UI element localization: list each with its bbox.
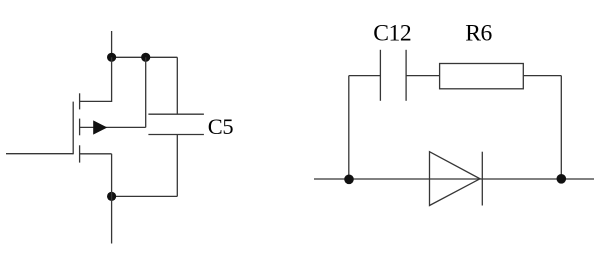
wire C5 to bottom rail — [176, 135, 178, 197]
svg-text:R6: R6 — [465, 21, 492, 47]
node junction dot right — [557, 174, 567, 184]
wire gate lead — [6, 153, 73, 155]
wire R6 to right vertical — [523, 75, 561, 77]
transistor Q1 channel bar bottom — [79, 145, 81, 162]
capacitor C12 left plate — [379, 50, 381, 101]
wire C12 to R6 — [406, 75, 440, 77]
diode D1 cathode bar — [481, 152, 483, 206]
capacitor C12 right plate — [405, 50, 407, 101]
transistor Q1 channel bar top — [79, 93, 81, 109]
wire source stub — [80, 153, 112, 155]
wire drain top lead — [111, 31, 113, 57]
node junction dot bottom — [107, 192, 116, 201]
transistor Q1 gate line — [72, 102, 74, 155]
wire top rail to C5 — [176, 57, 178, 114]
wire body line — [80, 126, 146, 128]
capacitor C5 top plate — [148, 113, 204, 115]
node junction dot top-left — [107, 53, 116, 62]
diode D1 triangle — [430, 152, 481, 206]
resistor R6 body — [440, 64, 524, 89]
wire body to top rail — [145, 57, 147, 127]
transistor Q1 channel bar middle — [79, 119, 81, 136]
wire source lead — [111, 154, 113, 244]
node junction dot left — [344, 175, 354, 185]
wire drain stub — [80, 57, 112, 101]
wire right vertical — [560, 76, 562, 179]
wire bottom main — [314, 178, 594, 180]
svg-text:C5: C5 — [208, 114, 234, 139]
wire top rail — [112, 56, 178, 58]
wire bottom rail — [112, 195, 178, 197]
node junction dot top-right — [141, 53, 150, 62]
wire top left branch — [349, 75, 381, 77]
transistor Q1 body arrow — [93, 120, 107, 134]
svg-text:C12: C12 — [373, 21, 411, 47]
capacitor C5 bottom plate — [148, 134, 204, 136]
wire left vertical — [348, 76, 350, 180]
